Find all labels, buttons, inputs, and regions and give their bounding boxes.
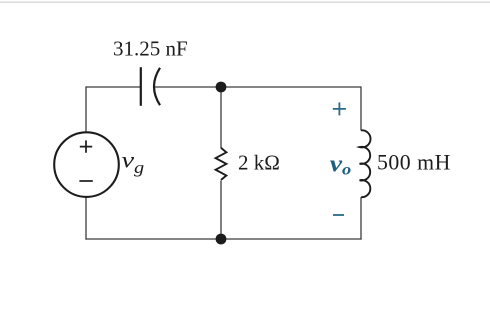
wire middle vertical upper (to resistor) bbox=[220, 87, 222, 148]
voltage source vg circle bbox=[54, 132, 119, 197]
top page border (decorative) bbox=[0, 1, 490, 3]
wire right vertical upper (to inductor) bbox=[360, 86, 362, 130]
wire right vertical lower (from inductor) bbox=[360, 197, 362, 239]
junction dot bottom bbox=[216, 234, 227, 245]
svg-text:2 kΩ: 2 kΩ bbox=[238, 151, 280, 175]
capacitor C: curved plate bbox=[154, 68, 160, 105]
junction dot top bbox=[216, 82, 227, 93]
voltage source plus sign bbox=[80, 140, 92, 152]
capacitor C: straight plate bbox=[140, 67, 142, 106]
svg-text:31.25 nF: 31.25 nF bbox=[113, 37, 188, 61]
output plus sign (teal) bbox=[333, 102, 346, 115]
wire left vertical upper bbox=[85, 86, 87, 132]
svg-text:vo: vo bbox=[330, 150, 352, 178]
wire middle vertical lower (from resistor) bbox=[220, 181, 222, 240]
svg-text:500 mH: 500 mH bbox=[377, 151, 451, 175]
inductor L coil bbox=[360, 130, 371, 197]
wire left vertical lower bbox=[85, 197, 87, 240]
wire top-left: capacitor left lead bbox=[86, 86, 140, 88]
wire top-right: capacitor to top-right corner bbox=[154, 86, 361, 88]
output minus sign (teal) bbox=[333, 214, 344, 216]
svg-text:vg: vg bbox=[122, 147, 145, 177]
wire bottom bbox=[85, 238, 361, 240]
resistor R zigzag bbox=[216, 148, 227, 180]
voltage source minus sign bbox=[79, 180, 92, 182]
